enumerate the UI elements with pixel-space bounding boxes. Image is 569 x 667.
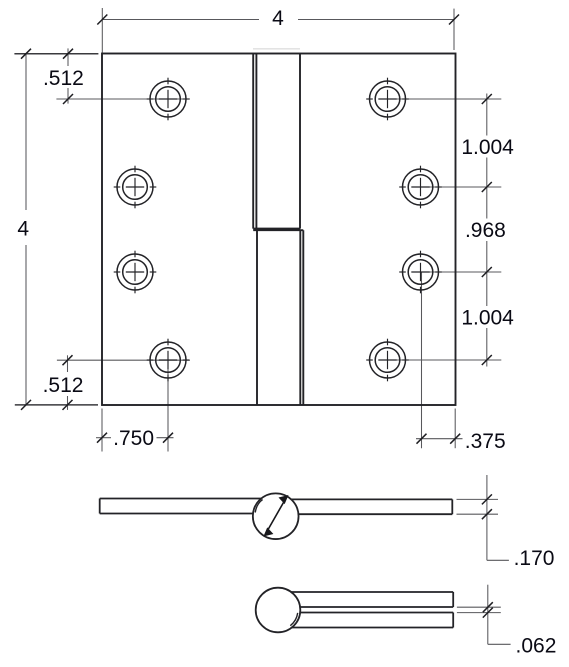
svg-text:.750: .750 [113, 427, 154, 450]
svg-text:.375: .375 [465, 430, 506, 453]
svg-text:.968: .968 [465, 219, 506, 242]
svg-text:4: 4 [17, 217, 29, 240]
svg-text:.170: .170 [514, 547, 555, 570]
svg-text:4: 4 [272, 7, 284, 30]
svg-text:.512: .512 [43, 374, 84, 397]
svg-text:1.004: 1.004 [461, 307, 514, 330]
svg-text:.512: .512 [43, 67, 84, 90]
svg-text:.062: .062 [516, 635, 557, 658]
svg-text:1.004: 1.004 [461, 136, 514, 159]
